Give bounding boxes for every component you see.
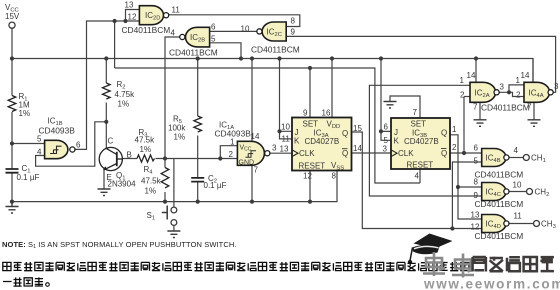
svg-text:K: K [394, 137, 400, 146]
svg-text:4.75k: 4.75k [115, 90, 136, 99]
watermark cap logo [408, 234, 453, 265]
wire: IC1B pin4 to collector node [36, 122, 107, 166]
junction dots ground rail [10, 200, 14, 204]
svg-text:13: 13 [471, 210, 480, 219]
labels R5 [168, 115, 186, 142]
svg-text:CD4011BCM: CD4011BCM [251, 45, 300, 55]
wire: R5 bottom to C2 [197, 136, 199, 178]
svg-text:1: 1 [452, 125, 457, 134]
wire: QA net [352, 132, 482, 229]
pin labels IC2D [125, 1, 181, 22]
labels R3 [135, 128, 156, 154]
junction dot set9 on W1 [308, 66, 312, 70]
svg-text:1%: 1% [19, 109, 31, 118]
svg-text:NOTE: S1 IS AN SPST NORMALLY O: NOTE: S1 IS AN SPST NORMALLY OPEN PUSHBU… [2, 240, 237, 250]
nand gate IC4D [482, 215, 509, 233]
svg-text:7: 7 [527, 103, 532, 112]
pin labels IC2B [171, 23, 217, 44]
flip-flop IC3A CD4027B [292, 118, 352, 172]
wire: R2 bottom to junction [105, 103, 107, 122]
svg-text:12: 12 [128, 13, 137, 22]
wire: IC1A out to IC3A clk [270, 152, 292, 154]
pin labels IC4B + CH1 [474, 144, 546, 166]
wire: R4 top lead [164, 159, 166, 168]
wire: IC4A pin14 stub [532, 59, 534, 83]
svg-text:3: 3 [554, 82, 559, 91]
wire: C2 to ground rail [197, 181, 199, 201]
svg-text:0.1 µF: 0.1 µF [17, 173, 40, 182]
svg-text:K: K [294, 137, 300, 146]
wire: IC3B set7 to ground [390, 96, 420, 118]
wire: QbarB riser to IC2A pin2 [463, 97, 465, 154]
wire: Q1 emitter lead [103, 169, 105, 189]
channel terminal CH3 [534, 221, 540, 227]
svg-text:100k: 100k [168, 124, 186, 133]
svg-text:6: 6 [474, 144, 479, 153]
svg-text:7: 7 [254, 166, 259, 175]
svg-text:CD4011BCM: CD4011BCM [169, 48, 218, 58]
svg-text:SET: SET [303, 119, 319, 128]
svg-text:47.5k: 47.5k [135, 136, 156, 145]
labels IC1A [215, 121, 278, 175]
svg-text:4: 4 [514, 146, 519, 155]
flip-flop IC3B CD4027B [391, 118, 450, 170]
wire: IC1A pin7 stub [251, 165, 253, 201]
nand gate IC4B [482, 149, 509, 167]
resistor R5 [194, 116, 202, 132]
svg-text:C: C [108, 137, 114, 146]
schmitt nand IC1A [237, 141, 270, 166]
svg-text:CD4027B: CD4027B [305, 137, 340, 146]
ground symbol IC3B set [384, 102, 397, 109]
svg-text:4: 4 [415, 172, 420, 181]
svg-text:CLK: CLK [299, 149, 315, 158]
svg-text:14: 14 [467, 71, 476, 80]
labels C1 [17, 164, 40, 182]
svg-text:Q: Q [342, 149, 348, 158]
switch S1 [162, 206, 177, 226]
junction dot R2/collector [104, 120, 108, 124]
wire: IC3A K loop [280, 131, 293, 139]
pin labels IC4C + CH2 [474, 178, 550, 201]
wire: VCC terminal to rail [11, 28, 13, 95]
svg-text:GND: GND [239, 160, 255, 167]
wire: IC2A pin2 [464, 96, 470, 98]
svg-text:8: 8 [474, 178, 479, 187]
svg-text:47.5k: 47.5k [141, 177, 162, 186]
wire: IC2D pin13 loop [126, 10, 140, 22]
svg-text:9: 9 [303, 109, 308, 118]
svg-text:CD4011BCM: CD4011BCM [475, 199, 524, 209]
wire: IC3A vdd16 stub [331, 59, 333, 118]
svg-text:8: 8 [332, 172, 337, 181]
pin labels IC4A [516, 71, 560, 112]
wire: IC4D out to CH3 [509, 223, 534, 225]
VCC terminal [9, 22, 15, 28]
wire: mystery net IC2A pin1 [369, 85, 481, 196]
wire: QA to IC4D pin12 [452, 228, 481, 230]
junction dots top feedback net [113, 19, 117, 23]
ground symbol Q1 emitter [98, 189, 111, 196]
svg-text:www.eeworm.com: www.eeworm.com [423, 277, 560, 290]
svg-text:12: 12 [303, 172, 312, 181]
wire: IC2B pin5 to rail [210, 43, 241, 59]
wire: IC3B reset4 stub [419, 169, 421, 183]
labels IC1B [37, 117, 81, 157]
svg-text:Q: Q [441, 128, 447, 137]
svg-text:RESET: RESET [407, 161, 434, 170]
svg-text:14: 14 [353, 144, 362, 153]
svg-text:CD4093B: CD4093B [39, 126, 76, 136]
wire: IC2C out 10 to IC2B pin6 [210, 30, 260, 32]
svg-text:11: 11 [282, 135, 291, 144]
svg-text:1: 1 [230, 138, 235, 147]
pin labels IC4D + CH3 [471, 210, 556, 231]
wire: net-A riser x114.6 [114, 21, 116, 68]
svg-text:2: 2 [460, 91, 465, 100]
pin labels IC3A [280, 109, 363, 181]
svg-text:Q: Q [441, 149, 447, 158]
wire: IC2B out 4 riser [165, 37, 180, 159]
svg-text:2: 2 [452, 143, 457, 152]
wire: IC1B out 6 riser to IC2D inputs [75, 21, 139, 149]
pin labels IC3B [383, 108, 458, 181]
junction dots base net [163, 156, 167, 160]
svg-text:2: 2 [229, 150, 234, 159]
svg-text:10: 10 [281, 123, 290, 132]
svg-text:11: 11 [514, 212, 523, 221]
svg-text:2: 2 [516, 91, 521, 100]
svg-text:16: 16 [322, 109, 331, 118]
ground symbol IC4A pin7 [528, 120, 541, 127]
svg-text:3: 3 [500, 83, 505, 92]
labels C2 [204, 174, 227, 190]
nand gate IC2A [470, 82, 499, 102]
caption line 2 period [46, 283, 50, 287]
svg-text:5: 5 [474, 157, 479, 166]
wire: R5 top [197, 59, 199, 117]
svg-text:10: 10 [241, 25, 250, 34]
wire: IC3A reset12 stub [309, 171, 311, 202]
wire: IC4B out to CH1 [509, 157, 523, 159]
nand gate IC2B (mirrored) [180, 27, 210, 47]
wire: QB net [450, 135, 482, 219]
labels R2 [115, 80, 136, 109]
wire: S1 riser [173, 159, 175, 208]
labels R4 [141, 165, 162, 196]
wire: VCC rail [12, 59, 533, 83]
watermark bug glyphs [423, 252, 474, 278]
channel terminal CH2 [527, 189, 533, 195]
svg-text:B: B [127, 151, 132, 160]
resistor R3 (horizontal) [137, 155, 155, 162]
wire: IC3A set9 stub [309, 68, 311, 118]
capacitor C2 [191, 178, 204, 182]
resistor R2 [103, 83, 111, 99]
wire: base net horizontal [122, 158, 237, 160]
wire: IC3B J/K riser [381, 59, 391, 132]
svg-text:6: 6 [384, 123, 389, 132]
pin labels IC2A [460, 71, 505, 112]
svg-text:4: 4 [171, 29, 176, 38]
junction dot IC1B pin5 node [10, 141, 14, 145]
svg-text:15: 15 [353, 124, 362, 133]
nand gate IC2D [139, 6, 168, 25]
labels Q1 [107, 137, 137, 189]
svg-text:1%: 1% [118, 100, 130, 109]
svg-text:1%: 1% [174, 133, 186, 142]
caption line 1 (Chinese) [3, 262, 469, 271]
svg-text:SET: SET [411, 120, 427, 129]
capacitor C1 [6, 169, 19, 173]
svg-text:11: 11 [172, 6, 181, 15]
wire: R1 bottom to C1 [11, 112, 13, 169]
svg-text:2N3904: 2N3904 [108, 180, 137, 189]
wire: net-A horizontal W1 [115, 68, 420, 183]
svg-text:CLK: CLK [398, 149, 414, 158]
svg-text:6: 6 [211, 23, 216, 32]
junction dots flip-flop nets [277, 129, 281, 133]
svg-text:J: J [295, 128, 299, 137]
ground symbol below C1 [6, 202, 19, 213]
wire: ground rail [12, 171, 337, 202]
svg-text:3: 3 [383, 145, 388, 154]
label VCC 15V [5, 3, 20, 21]
wire: IC4A pin7 stub [533, 102, 535, 120]
svg-text:RESET: RESET [299, 161, 326, 170]
svg-text:1%: 1% [145, 187, 157, 196]
svg-text:9: 9 [291, 28, 296, 37]
svg-text:1%: 1% [140, 145, 152, 154]
wire: S1 bottom lead [173, 225, 175, 231]
svg-text:3: 3 [272, 144, 277, 153]
resistor R1 [8, 96, 16, 112]
wire: QbarA to IC3B clk [352, 152, 392, 154]
wire: QB to IC4C pin8 [458, 186, 482, 188]
pin labels IC2C [241, 17, 296, 37]
svg-text:5: 5 [37, 135, 42, 144]
channel terminal CH1 [523, 155, 529, 161]
svg-text:CD4011BCM: CD4011BCM [475, 170, 524, 180]
watermark site-name glyphs [473, 257, 554, 272]
wire: C1 to ground rail [11, 173, 13, 202]
wire: IC3A J/K riser [280, 59, 293, 132]
nand gate IC4C [482, 183, 509, 201]
wire: IC2A pin7 stub [479, 102, 481, 120]
wire: IC2D out 11 to IC2C pin8 [169, 15, 300, 27]
ground symbol IC2A pin7 [474, 120, 487, 127]
svg-text:CD4011BCM: CD4011BCM [481, 103, 530, 113]
junction dots on VCC rail [10, 56, 14, 60]
wire: R2 top [105, 59, 107, 84]
svg-text:7: 7 [473, 103, 478, 112]
wire: IC1A pin14 stub [251, 59, 253, 142]
schmitt nand IC1B [45, 140, 75, 158]
wire: IC2A pin14 stub [475, 59, 477, 83]
transistor Q1 [99, 147, 122, 170]
wire: R4 to ground rail [164, 192, 166, 202]
wire: IC2C pin9 top loop to IC4A out [286, 36, 555, 92]
caption line 2 (Chinese) [3, 277, 43, 286]
resistor R4 [161, 168, 169, 188]
svg-text:13: 13 [125, 1, 134, 10]
svg-text:4: 4 [37, 148, 42, 157]
svg-text:15V: 15V [5, 12, 20, 21]
svg-text:CD4011BCM: CD4011BCM [475, 231, 524, 241]
svg-text:VCC: VCC [240, 145, 252, 153]
svg-text:CD4011BCM: CD4011BCM [122, 25, 171, 35]
nand gate IC4A [524, 82, 553, 102]
svg-text:5: 5 [211, 35, 216, 44]
nand gate IC2C (mirrored) [257, 22, 286, 41]
svg-text:J: J [394, 128, 398, 137]
svg-text:Q: Q [342, 129, 348, 138]
wire: IC2A out to IC4A inputs [499, 85, 524, 97]
labels R1 [19, 92, 31, 118]
svg-text:7: 7 [413, 108, 418, 117]
svg-text:10: 10 [513, 181, 522, 190]
svg-text:14: 14 [521, 71, 530, 80]
svg-text:8: 8 [291, 17, 296, 26]
svg-text:1: 1 [460, 76, 465, 85]
svg-text:13: 13 [280, 145, 289, 154]
ground symbol S1 [167, 231, 180, 238]
wire: collector riser [105, 122, 107, 149]
svg-text:6: 6 [76, 141, 81, 150]
svg-text:14: 14 [251, 132, 260, 141]
svg-text:CD4027B: CD4027B [404, 137, 439, 146]
wire: IC3B K loop [381, 131, 391, 140]
wire: IC4C out to CH2 [509, 191, 527, 193]
wire: IC1B pin5 [12, 143, 45, 145]
svg-text:0.1 µF: 0.1 µF [204, 181, 227, 190]
wire: IC1A pin1 loop [220, 146, 237, 159]
wire: QbarB to IC4B pin6 [450, 152, 482, 154]
